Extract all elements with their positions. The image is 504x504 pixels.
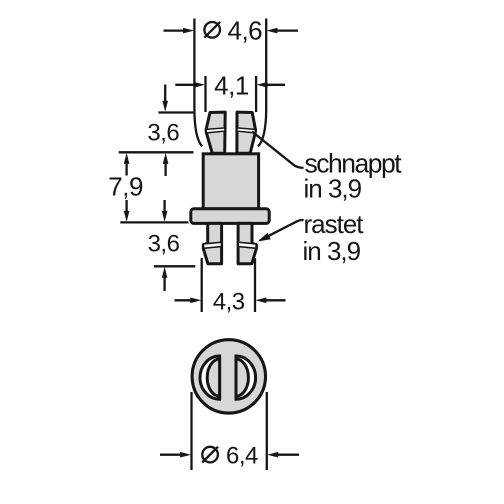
bottom prong right barb notch	[238, 242, 256, 248]
dimension Ø6,4 arrow right	[276, 454, 300, 456]
svg-text:6,4: 6,4	[226, 442, 258, 469]
dimension Ø4,6 diameter symbol	[204, 22, 220, 38]
bottom view right slot inner D	[236, 359, 248, 396]
svg-text:4,1: 4,1	[214, 70, 249, 100]
svg-text:4,6: 4,6	[228, 15, 263, 45]
top prong right barb notch	[237, 128, 255, 133]
dimension 7,9 upper arrow (pointing up)	[125, 162, 127, 176]
leader line to schnappt label	[252, 132, 304, 168]
dimension 3,6 top, lower arrow (pointing up)	[164, 162, 166, 177]
dimension Ø6,4 extension line left	[190, 392, 192, 470]
top prong right	[237, 112, 256, 153]
dimension 3,6 bottom, lower arrow (pointing up)	[163, 276, 165, 292]
svg-text:7,9: 7,9	[108, 172, 143, 202]
top prong left	[206, 112, 225, 153]
svg-text:in 3,9: in 3,9	[304, 174, 362, 204]
svg-text:rastet: rastet	[304, 209, 365, 239]
dimension 3,6 top, upper arrow (pointing down)	[164, 85, 166, 104]
dimension 7,9 lower arrow (pointing down)	[125, 200, 127, 213]
dimension 4,1 extension line left	[204, 76, 206, 112]
svg-text:4,3: 4,3	[213, 288, 245, 315]
dimension Ø4,6 extension line left (curved to prong barb)	[194, 19, 202, 147]
svg-text:3,6: 3,6	[147, 119, 179, 146]
dimension 4,3 arrow left	[175, 299, 194, 301]
extension line prong-tip level	[154, 265, 196, 267]
dimension Ø4,6 extension line right (curved to prong barb)	[258, 19, 266, 147]
bottom view flange disc	[192, 340, 265, 413]
top prong left barb notch	[206, 128, 225, 133]
svg-text:3,6: 3,6	[148, 231, 180, 258]
dimension Ø6,4 extension line right	[266, 392, 268, 470]
bottom view left slot inner D	[207, 359, 219, 396]
dimension Ø6,4 arrow left	[160, 454, 183, 456]
spacer flange (side view)	[191, 209, 269, 224]
dimension 4,1 extension line right	[255, 76, 257, 112]
dimension 4,1 arrow left	[175, 84, 196, 86]
dimension Ø4,6 arrow right	[275, 29, 298, 31]
dimension 4,3 extension line left	[201, 258, 203, 312]
extension line body-top level	[119, 151, 194, 153]
bottom prong left	[203, 223, 221, 263]
bottom prong right	[238, 223, 256, 263]
leader line to rastet label	[260, 220, 304, 240]
bottom prong left barb notch	[204, 242, 222, 248]
dimension Ø6,4 diameter symbol	[202, 447, 218, 463]
dimension 4,3 arrow right	[264, 299, 286, 301]
dimension 4,1 arrow right	[265, 84, 285, 86]
dimension 3,6 bottom, upper arrow (pointing down)	[163, 200, 165, 213]
bottom view left slot outer D	[200, 356, 220, 399]
spacer body (cylinder, side view)	[203, 154, 258, 209]
extension line flange-bottom level	[120, 221, 188, 223]
dimension Ø4,6 arrow left	[164, 29, 186, 31]
bottom view right slot outer D	[236, 356, 256, 399]
svg-text:in 3,9: in 3,9	[303, 236, 361, 266]
rastet leader arrowhead	[258, 233, 271, 242]
dimension 4,3 extension line right	[254, 258, 256, 312]
extension line prong-top level	[158, 111, 195, 113]
